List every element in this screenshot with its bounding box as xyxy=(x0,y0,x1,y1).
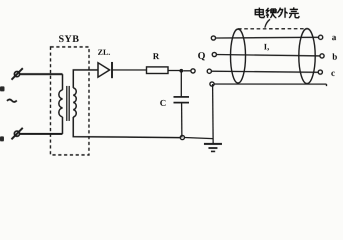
svg-text:I,: I, xyxy=(264,42,269,52)
svg-text:Q: Q xyxy=(198,51,206,62)
svg-text:C: C xyxy=(160,98,167,108)
svg-text:b: b xyxy=(332,52,337,62)
svg-text:a: a xyxy=(332,32,337,42)
svg-text:R: R xyxy=(153,51,160,61)
svg-text:ZL.: ZL. xyxy=(98,48,111,57)
svg-text:SYB: SYB xyxy=(59,34,80,45)
svg-text:c: c xyxy=(331,68,335,78)
